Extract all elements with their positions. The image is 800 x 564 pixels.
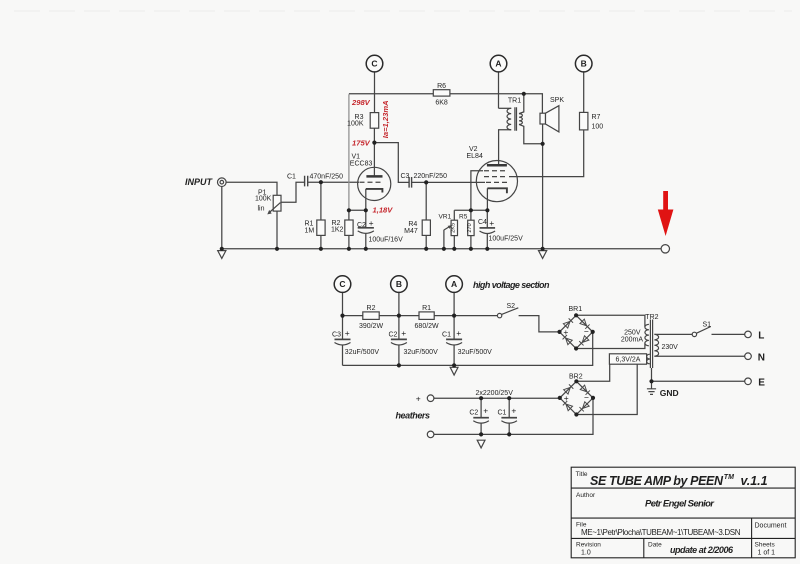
wire input jack to P1 top	[226, 182, 277, 195]
svg-text:R6: R6	[437, 83, 446, 90]
wire P1 bottom to ground bus	[276, 211, 278, 249]
terminal L	[745, 331, 752, 338]
ground bus	[222, 248, 661, 250]
svg-text:S2: S2	[507, 303, 516, 310]
svg-text:R5: R5	[459, 214, 468, 221]
svg-text:680/2W: 680/2W	[415, 323, 440, 330]
wire heater return rail and BR2 minus lead	[434, 398, 593, 435]
wire R4 leads	[425, 182, 427, 248]
svg-text:+: +	[416, 394, 421, 404]
svg-text:6K8: 6K8	[435, 99, 448, 106]
svg-text:ECC83: ECC83	[350, 161, 373, 168]
node A hv section	[446, 276, 463, 293]
svg-text:100uF/25V: 100uF/25V	[489, 236, 524, 243]
node B	[575, 55, 592, 72]
ground symbol at input	[218, 251, 226, 259]
svg-text:298V: 298V	[351, 98, 371, 107]
wire 6.3V winding to BR2 ac top	[576, 364, 609, 381]
svg-text:S1: S1	[703, 321, 712, 328]
svg-text:update at 2/2006: update at 2/2006	[670, 545, 734, 555]
svg-text:C1: C1	[442, 331, 451, 338]
svg-text:BR1: BR1	[569, 306, 583, 313]
svg-text:B: B	[581, 59, 587, 69]
svg-text:Sheets: Sheets	[755, 542, 776, 549]
svg-text:+: +	[483, 406, 488, 416]
svg-text:175V: 175V	[352, 139, 371, 148]
svg-text:1M: 1M	[305, 228, 315, 235]
svg-text:470nF/250: 470nF/250	[310, 173, 344, 180]
capacitor C2 hv electrolytic	[391, 338, 407, 340]
resistor R3	[370, 113, 379, 129]
wire R1 from grid node to bus	[320, 182, 322, 249]
wire 6.3V winding to BR2 ac bottom	[576, 364, 637, 414]
wire V2 cathode row	[454, 210, 487, 220]
wire TR1 primary top stub	[499, 107, 512, 109]
wire C3 to V2 grid node	[412, 181, 485, 183]
svg-text:+: +	[456, 328, 461, 338]
wire R5 leads	[470, 210, 472, 249]
svg-text:V2: V2	[469, 146, 478, 153]
svg-text:N: N	[758, 352, 765, 363]
resistor R1 hv	[419, 312, 434, 320]
bridge rectifier BR1	[560, 315, 593, 348]
svg-text:TR2: TR2	[645, 314, 658, 321]
svg-text:C3: C3	[401, 173, 410, 180]
resistor R4	[422, 220, 430, 235]
V2 grid g1 dashes	[486, 181, 509, 183]
wire BR1 ac bottom to TR2	[576, 343, 645, 348]
svg-text:32uF/500V: 32uF/500V	[404, 349, 439, 356]
junction dots top section	[220, 247, 224, 251]
svg-text:Revision: Revision	[576, 542, 601, 549]
svg-text:+: +	[564, 393, 569, 403]
terminal E	[745, 378, 752, 385]
pentode V2	[476, 161, 517, 202]
svg-text:100: 100	[592, 123, 604, 130]
svg-text:R7: R7	[592, 114, 601, 121]
terminal at right end of ground bus	[661, 245, 669, 253]
resistor R2 hv	[363, 312, 379, 320]
svg-text:C4: C4	[478, 219, 487, 226]
svg-text:heathers: heathers	[396, 410, 431, 420]
svg-text:Date: Date	[648, 542, 662, 549]
svg-text:200mA: 200mA	[621, 337, 644, 344]
V2 suppressor g3 dashes	[484, 170, 507, 172]
svg-text:Author: Author	[576, 492, 596, 499]
svg-text:TM: TM	[724, 474, 734, 481]
wire TR1 secondary top lead	[519, 94, 524, 114]
svg-text:C2: C2	[469, 409, 478, 416]
wire C2 leads	[365, 210, 367, 249]
svg-text:1K2: 1K2	[331, 227, 344, 234]
gray annotation line at 298V column	[348, 94, 350, 210]
svg-text:SE TUBE AMP by PEEN: SE TUBE AMP by PEEN	[590, 474, 724, 488]
svg-text:BR2: BR2	[569, 374, 583, 381]
node C	[366, 55, 383, 72]
node A	[490, 55, 507, 72]
wire node A lead	[498, 72, 500, 108]
svg-text:R1: R1	[305, 221, 314, 228]
speaker SPK	[540, 113, 546, 124]
wire P1 wiper tap to C1	[281, 182, 305, 202]
wire BR1 ac top to TR2	[576, 315, 645, 327]
svg-text:v.1.1: v.1.1	[741, 474, 768, 488]
resistor R2	[345, 220, 353, 235]
svg-text:M47: M47	[404, 228, 418, 235]
switch S2	[497, 313, 501, 317]
junction dots heater section	[574, 379, 578, 383]
svg-text:C1: C1	[497, 409, 506, 416]
wire node C (hv) lead	[342, 292, 344, 315]
wire 175V node to C3	[374, 143, 409, 183]
wire R7 bottom to V2 screen grid	[509, 130, 584, 177]
svg-text:32uF/500V: 32uF/500V	[345, 349, 380, 356]
resistor R1	[317, 220, 325, 235]
ground symbol at speaker	[539, 251, 547, 259]
svg-text:C: C	[371, 59, 377, 69]
transformer TR1 primary winding	[507, 108, 511, 130]
wire 230V winding to N terminal	[654, 355, 744, 357]
svg-text:1,18V: 1,18V	[373, 205, 394, 214]
svg-text:GND: GND	[660, 388, 679, 398]
wire TR2 core to mains earth node	[651, 368, 653, 381]
wire TR1 secondary bottom lead	[519, 124, 543, 143]
V2 screen g2 dashes	[484, 176, 508, 178]
capacitor C1 heater electrolytic	[501, 417, 517, 419]
wire VR1 wiper to bus	[443, 230, 445, 249]
capacitor C4 electrolytic	[480, 227, 496, 229]
wire V2 g3 lead	[471, 171, 483, 211]
wire input jack to ground bus	[221, 187, 223, 249]
svg-text:EL84: EL84	[467, 153, 483, 160]
svg-text:+: +	[563, 327, 568, 337]
svg-text:lin: lin	[258, 206, 265, 213]
svg-text:+: +	[489, 218, 494, 228]
label box 6,3V/2A	[609, 354, 646, 364]
capacitor C2 electrolytic	[358, 227, 374, 229]
svg-text:1 of 1: 1 of 1	[758, 550, 776, 557]
svg-text:+: +	[511, 406, 516, 416]
svg-text:6,3V/2A: 6,3V/2A	[616, 357, 641, 364]
wire V2 cathode lead	[486, 188, 488, 210]
svg-text:R1: R1	[422, 305, 431, 312]
svg-text:−: −	[584, 393, 589, 403]
svg-text:+: +	[345, 328, 350, 338]
wire S2 to BR1 plus	[519, 316, 560, 332]
terminal N	[745, 353, 752, 360]
svg-text:A: A	[451, 279, 457, 289]
svg-text:C: C	[339, 279, 345, 289]
svg-text:100K: 100K	[255, 195, 272, 202]
svg-text:Petr Engel Senior: Petr Engel Senior	[645, 499, 715, 510]
wire earth to E terminal	[652, 380, 745, 382]
svg-text:Title: Title	[576, 471, 588, 478]
svg-text:L: L	[758, 331, 764, 342]
red marker arrow	[658, 191, 674, 236]
svg-text:100K: 100K	[347, 120, 364, 127]
svg-text:2K5: 2K5	[450, 223, 456, 233]
capacitor C3	[409, 177, 412, 188]
V1 grid dashes	[360, 181, 382, 183]
transformer TR2 hv winding	[645, 324, 649, 345]
wire C4 leads	[486, 210, 488, 249]
svg-text:V1: V1	[352, 154, 361, 161]
transformer TR1 core	[515, 107, 517, 131]
wire heater C2 leads	[480, 398, 482, 434]
wire hv bottom bus to BR1 minus	[343, 332, 593, 366]
wire speaker bottom lead	[542, 124, 544, 144]
resistor R5	[468, 220, 474, 235]
svg-text:R2: R2	[367, 305, 376, 312]
title block frame	[571, 467, 795, 558]
svg-text:A: A	[495, 59, 501, 69]
svg-text:+: +	[369, 218, 374, 228]
svg-text:INPUT: INPUT	[185, 177, 214, 187]
wire 230V winding to S1	[654, 333, 692, 335]
transformer TR2 heater winding 6.3V	[647, 354, 650, 364]
wire R2 leads	[348, 210, 350, 249]
wire V1 anode lead to 175V node	[373, 143, 375, 177]
faint page top border	[14, 10, 792, 12]
wire C1 to V1 grid	[308, 181, 359, 183]
ground symbol hv section	[450, 367, 458, 375]
svg-text:VR1: VR1	[439, 213, 452, 220]
input jack J1	[218, 178, 227, 187]
wire node B (hv) lead	[398, 292, 400, 315]
svg-text:C2: C2	[388, 331, 397, 338]
svg-text:C1: C1	[287, 173, 296, 180]
svg-text:100uF/16V: 100uF/16V	[369, 236, 404, 243]
resistor R6	[433, 90, 450, 96]
svg-text:+: +	[401, 328, 406, 338]
triode V1	[358, 167, 391, 200]
wire C3 hv leads	[342, 316, 344, 366]
wire TR1 primary bottom stub and V2 anode lead	[499, 130, 512, 166]
bridge rectifier BR2	[560, 381, 593, 414]
svg-text:230V: 230V	[662, 344, 679, 351]
wire S1 to L terminal	[712, 333, 745, 335]
wire C2 hv leads	[398, 316, 400, 366]
heater return terminal	[427, 431, 434, 438]
earth ground GND	[647, 389, 656, 395]
transformer TR2 mains winding 230V	[654, 334, 658, 356]
wire hv rail	[343, 315, 498, 317]
svg-text:390/2W: 390/2W	[359, 323, 384, 330]
svg-text:C2: C2	[357, 222, 366, 229]
svg-text:2x2200/25V: 2x2200/25V	[476, 390, 514, 397]
potentiometer P1	[273, 195, 281, 211]
wire heater C1 leads	[508, 398, 510, 434]
node C hv section	[334, 276, 351, 293]
capacitor C1	[305, 176, 308, 187]
wire V1 cathode lead	[365, 189, 367, 210]
capacitor C1 hv electrolytic	[446, 338, 462, 340]
svg-text:TR1: TR1	[508, 98, 521, 105]
svg-text:270: 270	[467, 223, 473, 232]
svg-text:ME~1\Petr\Plocha\TUBEAM~1\TUBE: ME~1\Petr\Plocha\TUBEAM~1\TUBEAM~3.DSN	[581, 528, 741, 537]
svg-text:250V: 250V	[624, 329, 641, 336]
transformer TR2 core	[650, 320, 652, 369]
svg-text:220nF/250: 220nF/250	[414, 173, 448, 180]
wire R3 bottom lead	[373, 128, 375, 142]
wire node A (hv) lead	[453, 292, 455, 315]
svg-text:1.0: 1.0	[581, 550, 591, 557]
transformer TR1 secondary winding	[519, 114, 522, 125]
svg-text:E: E	[758, 377, 765, 388]
switch S1	[692, 332, 696, 336]
heater plus terminal	[427, 395, 434, 402]
trimmer VR1	[451, 220, 457, 235]
capacitor C3 hv electrolytic	[335, 338, 351, 340]
svg-text:Document: Document	[755, 523, 787, 530]
wire node C lead through rail to R3 top	[374, 72, 376, 113]
wire VR1 bottom lead	[453, 236, 455, 249]
node B hv section	[391, 276, 408, 293]
svg-text:high voltage section: high voltage section	[473, 280, 550, 290]
wire V1 cathode row	[349, 209, 366, 211]
svg-text:SPK: SPK	[550, 97, 564, 104]
wire C1 hv leads	[453, 316, 455, 366]
svg-text:B: B	[396, 279, 402, 289]
svg-text:C3: C3	[332, 331, 341, 338]
wire heater plus rail	[434, 397, 560, 399]
capacitor C2 heater electrolytic	[473, 417, 489, 419]
resistor R7	[580, 112, 588, 129]
ground symbol heater	[477, 440, 485, 448]
svg-text:Ia=1,23mA: Ia=1,23mA	[381, 100, 390, 138]
svg-text:−: −	[584, 326, 589, 336]
svg-text:32uF/500V: 32uF/500V	[458, 349, 493, 356]
wire rail to speaker top	[499, 94, 543, 113]
wire speaker ground to bus	[542, 144, 544, 249]
junction dots hv section	[340, 314, 344, 318]
wire node B lead	[583, 72, 585, 113]
wire B+ rail 298V	[349, 93, 499, 95]
